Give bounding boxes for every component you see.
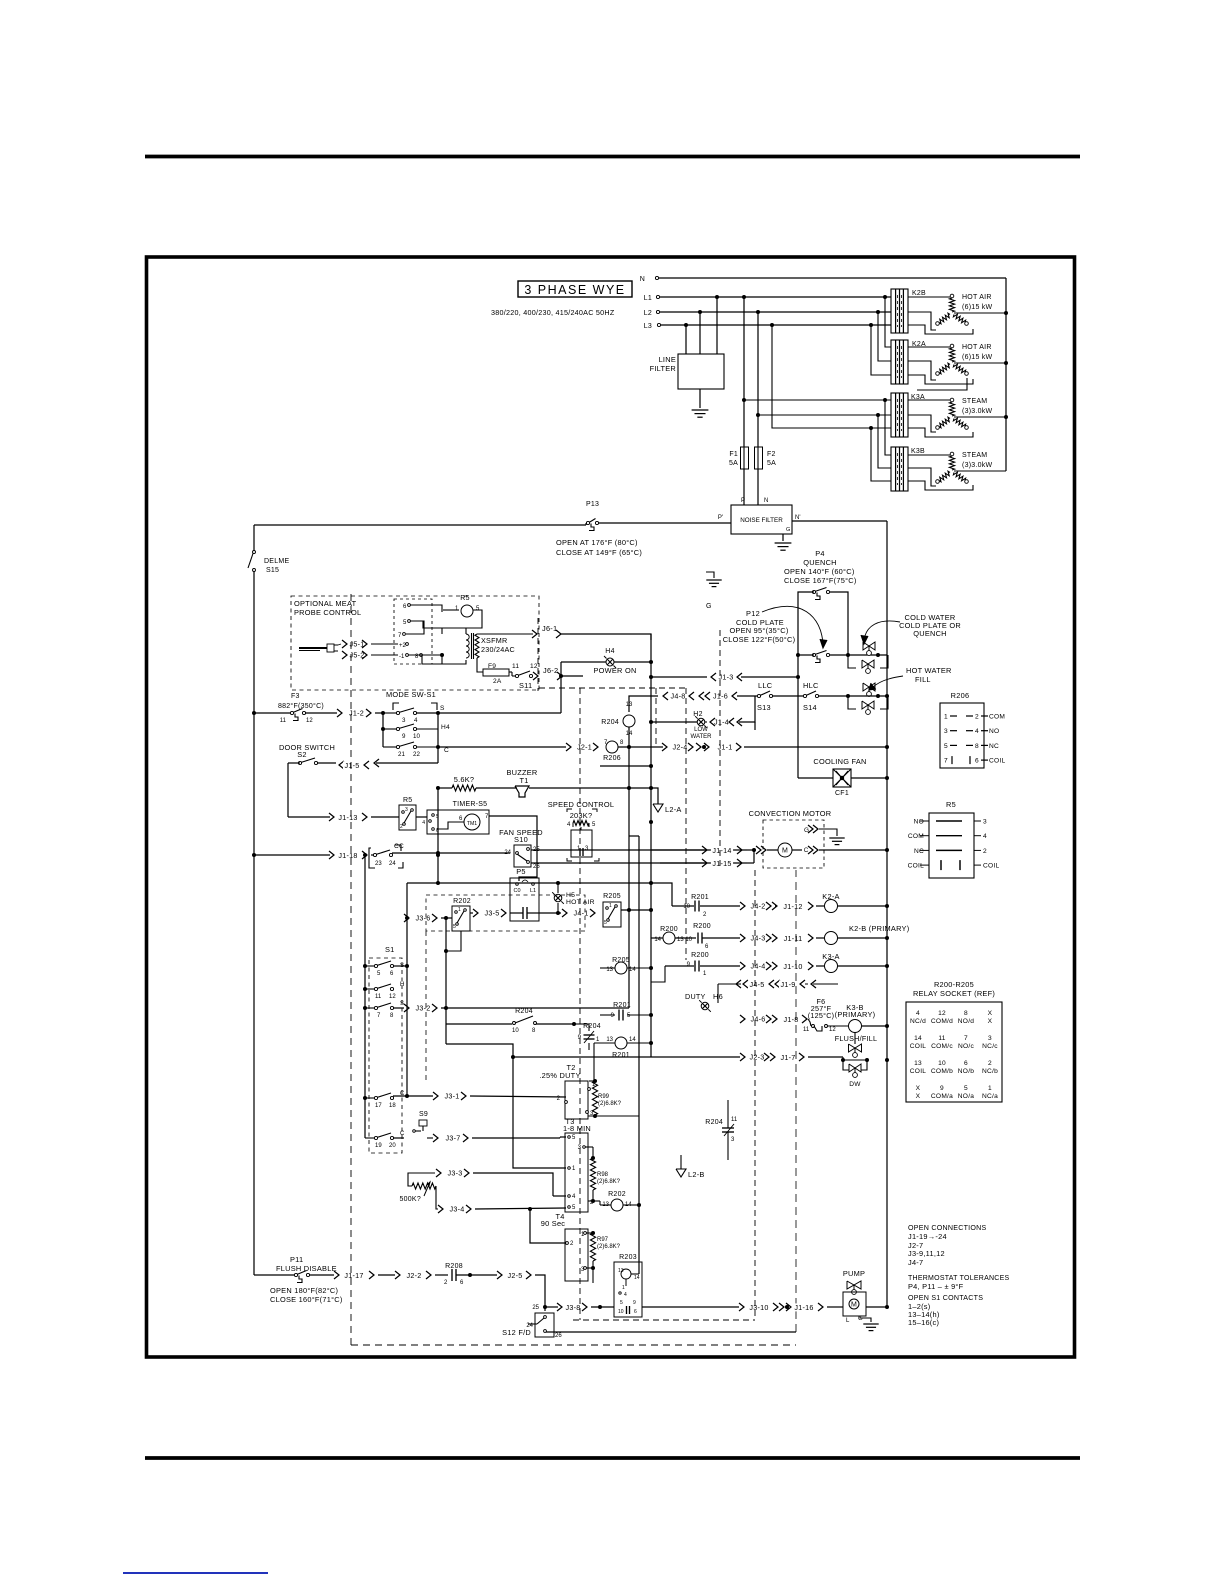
S1 dashed box xyxy=(369,958,402,1153)
connector J1-11 xyxy=(772,934,777,942)
optional meat probe control dashed box xyxy=(291,596,539,690)
svg-text:OPEN S1 CONTACTS: OPEN S1 CONTACTS xyxy=(908,1294,983,1302)
svg-text:(6)15 kW: (6)15 kW xyxy=(962,304,993,311)
node 629 910 xyxy=(627,908,631,912)
solenoid valve hot water xyxy=(863,683,875,691)
wire row 883 xyxy=(407,882,651,884)
svg-text:R5: R5 xyxy=(946,800,956,809)
svg-text:NC/c: NC/c xyxy=(982,1043,998,1050)
svg-text:J4-7: J4-7 xyxy=(908,1258,923,1267)
svg-text:J1-5: J1-5 xyxy=(345,761,360,770)
svg-text:10: 10 xyxy=(618,1309,624,1315)
svg-text:STEAM: STEAM xyxy=(962,398,987,405)
connector J5-2 xyxy=(350,651,363,659)
svg-text:20: 20 xyxy=(389,1143,396,1149)
connector J1-13 xyxy=(329,813,334,821)
convection motor dashed box xyxy=(763,820,824,868)
node J3-8 tap xyxy=(543,1305,547,1309)
wire S1 C-rows out xyxy=(393,1095,433,1097)
svg-text:NOISE FILTER: NOISE FILTER xyxy=(740,517,783,524)
svg-text:4: 4 xyxy=(414,717,418,724)
svg-text:J6-1: J6-1 xyxy=(542,624,557,633)
node L2-filter xyxy=(698,310,702,314)
svg-text:26: 26 xyxy=(555,1333,562,1339)
svg-text:11: 11 xyxy=(803,1027,810,1033)
svg-text:J3-7: J3-7 xyxy=(446,1133,461,1142)
footer link line xyxy=(123,1572,268,1574)
wire J6-2 to vertical 561 xyxy=(562,675,583,677)
wire 629 mid segment xyxy=(628,747,630,788)
heater STEAM 2 (wye) xyxy=(950,452,954,456)
connector J1-10 xyxy=(772,962,777,970)
svg-text:J1-11: J1-11 xyxy=(784,934,803,943)
wire J1-7 right xyxy=(808,1056,843,1058)
dashed boundary left vertical xyxy=(350,594,352,1345)
svg-text:J4-6: J4-6 xyxy=(751,1014,766,1023)
connector J3-3 xyxy=(444,1169,465,1177)
wire L3 drop to line filter xyxy=(685,325,687,354)
svg-text:J1-10: J1-10 xyxy=(783,962,802,971)
svg-text:R200: R200 xyxy=(691,952,709,959)
wire R203 out to J3-10 xyxy=(642,1306,739,1308)
timer T4 box xyxy=(565,1229,588,1281)
wire to J3-8 xyxy=(545,1306,558,1308)
svg-text:COM/c: COM/c xyxy=(931,1043,953,1050)
node mode C out xyxy=(436,745,440,749)
node 651 1015 xyxy=(649,1013,653,1017)
svg-text:12: 12 xyxy=(938,1010,946,1017)
svg-text:4: 4 xyxy=(975,728,979,735)
svg-text:NC: NC xyxy=(989,743,999,750)
svg-text:FLUSH/FILL: FLUSH/FILL xyxy=(835,1034,877,1043)
svg-text:R202: R202 xyxy=(453,898,471,905)
svg-text:H5: H5 xyxy=(566,892,575,899)
wire F2 to noise filter N xyxy=(757,469,759,505)
wire J2-5 to S12 xyxy=(535,1275,545,1311)
svg-text:R5: R5 xyxy=(460,595,469,602)
wire H4 row xyxy=(561,661,606,663)
node valve1 right xyxy=(876,653,880,657)
wire 755 link down xyxy=(754,722,756,730)
ground noise filter xyxy=(775,542,792,544)
speed control box xyxy=(571,830,592,857)
svg-text:3: 3 xyxy=(944,728,948,735)
svg-text:5: 5 xyxy=(620,1300,623,1306)
node L1-F1 xyxy=(742,295,746,299)
wire timer out to P5 xyxy=(489,816,537,881)
svg-text:P: P xyxy=(741,498,745,504)
node J1-14 xyxy=(752,848,756,852)
relay socket table box xyxy=(906,1002,1002,1102)
wire L1 xyxy=(660,296,891,298)
wire 796 riser xyxy=(795,870,797,1332)
heater HOT AIR 2 (wye) xyxy=(950,344,954,348)
node mode S right xyxy=(436,711,440,715)
svg-text:COM: COM xyxy=(908,833,924,840)
resistor R98 xyxy=(590,1158,595,1190)
mode switch dashed brackets xyxy=(393,703,399,710)
svg-text:.25% DUTY: .25% DUTY xyxy=(539,1071,580,1080)
svg-text:P5: P5 xyxy=(516,867,526,876)
svg-text:S: S xyxy=(440,705,445,712)
svg-text:OPEN 95°(35°C): OPEN 95°(35°C) xyxy=(729,626,788,635)
svg-text:5: 5 xyxy=(964,1085,968,1092)
svg-text:12: 12 xyxy=(829,1027,836,1033)
vertical wire 446 xyxy=(445,918,447,1044)
wire R206 to J2-4 xyxy=(618,746,663,748)
wire L2 to fuse F2 xyxy=(757,312,759,447)
wire left bus to J1-18 xyxy=(254,854,330,856)
svg-text:H: H xyxy=(400,982,404,988)
svg-text:11: 11 xyxy=(731,1117,738,1123)
relay socket R206 xyxy=(940,703,984,768)
svg-text:J3-3: J3-3 xyxy=(448,1168,463,1177)
connector J1-9 xyxy=(775,980,780,988)
resistor R99 xyxy=(592,1081,597,1115)
node K3B tap3 xyxy=(869,426,873,430)
svg-text:QUENCH: QUENCH xyxy=(913,629,947,638)
svg-text:S2: S2 xyxy=(297,750,307,759)
contactor K2A xyxy=(891,340,908,384)
svg-text:G: G xyxy=(786,527,790,533)
wire left bus corner to P11 xyxy=(254,1274,294,1276)
svg-text:13: 13 xyxy=(914,1060,922,1067)
timer TM1 box xyxy=(427,810,489,834)
svg-text:PUMP: PUMP xyxy=(843,1269,865,1278)
svg-text:24: 24 xyxy=(389,861,396,867)
switch DELME S15 xyxy=(253,551,256,554)
connector J1-6 xyxy=(699,692,704,700)
svg-text:COIL: COIL xyxy=(908,863,924,870)
svg-text:J2-2: J2-2 xyxy=(407,1271,422,1280)
svg-text:3: 3 xyxy=(988,1035,992,1042)
arrow cold water callout xyxy=(864,621,900,640)
svg-text:R200-R205: R200-R205 xyxy=(934,980,974,989)
svg-text:L2-A: L2-A xyxy=(665,805,682,814)
svg-text:(3)3.0kW: (3)3.0kW xyxy=(962,462,993,469)
wire J3-3 row xyxy=(473,1173,553,1196)
wire S10 25 to J1-14 row xyxy=(531,849,747,851)
svg-text:L3: L3 xyxy=(644,323,652,330)
svg-text:14: 14 xyxy=(629,1037,636,1043)
svg-text:MODE SW-S1: MODE SW-S1 xyxy=(386,690,436,699)
svg-text:CLOSE 122°F(50°C): CLOSE 122°F(50°C) xyxy=(723,635,796,644)
svg-text:M: M xyxy=(782,848,788,855)
node heater3 bus xyxy=(1004,415,1008,419)
pump valve symbol xyxy=(847,1281,861,1289)
connector J1-2 xyxy=(345,709,367,717)
heater HOT AIR 1 (wye) xyxy=(950,294,954,298)
connector J1-18 xyxy=(329,851,334,859)
wire K3B pole1 to heater4 xyxy=(908,454,950,456)
wire L2 drop to K2A xyxy=(878,312,891,361)
wire R99 top riser xyxy=(593,1077,595,1081)
vertical wire 438 xyxy=(437,788,439,884)
wire J3-4 row xyxy=(475,1208,566,1209)
wire pot to J3-3 xyxy=(408,1173,435,1186)
node L1-filter xyxy=(715,295,719,299)
node valve3 right xyxy=(876,694,880,698)
wire J1-1 to bus xyxy=(744,746,887,748)
svg-text:OPEN AT 176°F (80°C): OPEN AT 176°F (80°C) xyxy=(556,538,638,547)
svg-text:J4-5: J4-5 xyxy=(750,980,765,989)
svg-text:(3)3.0kW: (3)3.0kW xyxy=(962,408,993,415)
svg-text:H2: H2 xyxy=(693,711,702,718)
wire L3 gray to K3A pole3 xyxy=(772,427,891,429)
svg-text:R200: R200 xyxy=(693,923,711,930)
svg-text:R202: R202 xyxy=(608,1191,626,1198)
svg-text:THERMOSTAT TOLERANCES: THERMOSTAT TOLERANCES xyxy=(908,1275,1010,1282)
lamp H5 hot air xyxy=(557,903,559,913)
svg-text:-1: -1 xyxy=(399,654,405,660)
wire K3B pole2 to heater4 xyxy=(908,468,936,486)
wire H2 left xyxy=(651,721,697,723)
svg-text:HOT WATER: HOT WATER xyxy=(906,666,952,675)
connector J3-4 xyxy=(446,1205,467,1213)
svg-text:5: 5 xyxy=(604,920,607,926)
bypass loop valve 2 xyxy=(848,655,856,668)
wire P4 right leg xyxy=(830,592,848,654)
svg-text:J4-1: J4-1 xyxy=(574,908,589,917)
svg-text:M: M xyxy=(851,1302,857,1309)
wire J1-15 left tail xyxy=(600,862,660,864)
wire K2A pole2 to heater2 xyxy=(908,361,936,380)
wire S14 to valves xyxy=(818,695,887,697)
svg-text:5: 5 xyxy=(453,924,456,930)
svg-text:P': P' xyxy=(718,515,723,521)
speed control dashed corners xyxy=(567,809,572,812)
node L1 K2A tap xyxy=(883,295,887,299)
relay socket R5 xyxy=(929,813,974,878)
wire J3-1 row to T2 pin2 xyxy=(470,1096,566,1097)
node 651 910 xyxy=(649,908,653,912)
svg-text:J1-19→-24: J1-19→-24 xyxy=(908,1232,947,1241)
connector J3-2 xyxy=(412,1004,433,1012)
svg-text:19: 19 xyxy=(375,1143,382,1149)
bypass loop valve DW2 xyxy=(848,696,856,709)
svg-text:14: 14 xyxy=(634,1275,640,1281)
wire L1 drop to line filter xyxy=(716,297,718,354)
svg-text:DELME: DELME xyxy=(264,558,289,565)
wire CC to fan speed xyxy=(392,852,510,854)
node pump row xyxy=(785,1305,789,1309)
wire R205 coil xyxy=(600,967,615,969)
wire J1-8 to F6 xyxy=(808,1019,811,1026)
wire J1-14 link xyxy=(747,849,754,851)
wire P5 to J4-1 xyxy=(539,912,561,914)
wire S2 to J1-5 xyxy=(317,762,336,764)
wire noise filter G to ground xyxy=(782,534,784,541)
svg-text:P4: P4 xyxy=(815,549,825,558)
svg-text:N: N xyxy=(640,276,645,283)
switch S1 cc xyxy=(373,853,376,856)
transformer XSFMR xyxy=(441,628,443,634)
arrow right J1-9 xyxy=(811,980,816,988)
page top rule xyxy=(145,155,1080,159)
svg-text:J1-15: J1-15 xyxy=(712,859,731,868)
svg-text:R97: R97 xyxy=(597,1237,609,1243)
connector J4-8 xyxy=(668,692,687,700)
svg-text:R201: R201 xyxy=(691,894,709,901)
svg-text:7: 7 xyxy=(964,1035,968,1042)
wire R201 coil riser xyxy=(594,1042,615,1044)
wire noise filter N prime to right bus xyxy=(792,520,887,522)
wire to K3A pole1 xyxy=(744,399,891,401)
svg-text:POWER ON: POWER ON xyxy=(593,666,636,675)
row 766 stub xyxy=(600,765,651,767)
svg-text:P4, P11 – ± 9°F: P4, P11 – ± 9°F xyxy=(908,1282,964,1291)
wire motor to bus xyxy=(819,849,887,851)
connector J5-1 xyxy=(350,640,363,648)
connector J1-5 xyxy=(339,761,344,769)
thermostat P4 xyxy=(812,590,815,593)
ground line filter xyxy=(692,409,709,411)
wire T4 pin2 left xyxy=(530,1209,566,1243)
wire T2/R99 bottom row xyxy=(588,1115,639,1117)
dashed boundary 720 vertical xyxy=(719,630,721,870)
svg-text:N': N' xyxy=(795,515,800,521)
svg-text:NO: NO xyxy=(989,728,999,735)
wire drop to K3B pole3 xyxy=(871,428,891,481)
wire T3 pin3 to R98 xyxy=(585,1146,593,1148)
connector J1-1 xyxy=(696,743,701,751)
svg-text:J2-5: J2-5 xyxy=(508,1271,523,1280)
svg-text:CF1: CF1 xyxy=(835,790,849,797)
node 651 row766 xyxy=(649,764,653,768)
svg-text:6: 6 xyxy=(634,1309,637,1315)
svg-text:12: 12 xyxy=(306,718,313,724)
dashed boundary bottom L xyxy=(573,1319,755,1321)
node 438 buzzer xyxy=(436,786,440,790)
svg-text:10: 10 xyxy=(413,733,420,740)
svg-text:S12 F/D: S12 F/D xyxy=(502,1328,531,1337)
flag L2-A xyxy=(653,804,663,812)
svg-text:J1-6: J1-6 xyxy=(713,691,728,700)
svg-text:J5-1: J5-1 xyxy=(350,639,365,648)
svg-text:J6-2: J6-2 xyxy=(543,666,558,675)
svg-text:RELAY SOCKET (REF): RELAY SOCKET (REF) xyxy=(913,989,995,998)
svg-text:COIL: COIL xyxy=(910,1043,926,1050)
wire K2A pole3 to heater2 xyxy=(908,375,973,384)
wire J2-2 to R208 xyxy=(435,1274,448,1276)
wire L1 drop to K2A xyxy=(885,297,891,347)
svg-text:J1-12: J1-12 xyxy=(783,902,802,911)
title box 3 PHASE WYE xyxy=(518,281,632,297)
svg-text:X: X xyxy=(916,1093,921,1100)
node heater1 bus xyxy=(1004,311,1008,315)
svg-text:S11: S11 xyxy=(519,681,532,690)
node 651 968 xyxy=(649,966,653,970)
connector J1-14 xyxy=(702,846,707,854)
svg-text:S1: S1 xyxy=(385,945,395,954)
wire R97 bottom xyxy=(592,1261,594,1283)
svg-text:OPEN CONNECTIONS: OPEN CONNECTIONS xyxy=(908,1224,987,1232)
svg-text:J1-9: J1-9 xyxy=(781,980,796,989)
svg-text:R205: R205 xyxy=(603,893,621,900)
svg-text:F2: F2 xyxy=(767,451,776,458)
noise filter xyxy=(731,505,792,534)
svg-text:K2-B (PRIMARY): K2-B (PRIMARY) xyxy=(849,924,909,933)
S1 contact 5-6 xyxy=(363,964,367,968)
svg-text:5A: 5A xyxy=(767,460,776,467)
wire R200 coil left xyxy=(651,937,663,939)
wire 446 to R204 xyxy=(446,1023,512,1025)
S1 contact 7-8 xyxy=(363,1006,367,1010)
svg-text:OPEN 180°F(82°C): OPEN 180°F(82°C) xyxy=(270,1286,338,1295)
wire J1-16 to pump xyxy=(827,1306,843,1308)
thermostat P13 xyxy=(586,521,589,524)
svg-text:1: 1 xyxy=(609,903,612,909)
svg-text:J5-2: J5-2 xyxy=(350,650,365,659)
wire J6-1 to power-on loop xyxy=(561,634,651,640)
svg-text:S15: S15 xyxy=(266,567,279,574)
svg-text:S10: S10 xyxy=(514,835,528,844)
wire to K3A pole2 xyxy=(758,414,891,416)
svg-text:10: 10 xyxy=(512,1028,519,1034)
svg-text:230/24AC: 230/24AC xyxy=(481,645,515,654)
svg-text:11: 11 xyxy=(375,994,382,1000)
svg-text:R204: R204 xyxy=(705,1119,723,1126)
node 651 H2 xyxy=(649,720,653,724)
wire J1-4 arrow to vertical link xyxy=(737,718,742,726)
node L2-F2 xyxy=(756,310,760,314)
connector J1-17 xyxy=(334,1271,339,1279)
motor chevrons in xyxy=(756,846,761,854)
wire heater2 lower hook xyxy=(917,378,967,390)
wire P12 row xyxy=(798,654,814,656)
svg-text:J1-14: J1-14 xyxy=(712,846,731,855)
vertical wire 407 xyxy=(406,883,408,1096)
svg-text:R204: R204 xyxy=(601,719,619,726)
wire L2-A stub xyxy=(651,788,658,804)
svg-text:26: 26 xyxy=(533,864,540,870)
wire S9 to J3-7 xyxy=(427,1137,433,1139)
wire L3 xyxy=(661,324,891,326)
svg-text:OPTIONAL MEAT: OPTIONAL MEAT xyxy=(294,599,357,608)
S1 contact 17-18 xyxy=(363,1096,367,1100)
node heater2 bus xyxy=(1004,361,1008,365)
node 651 1043 xyxy=(649,1041,653,1045)
svg-text:5A: 5A xyxy=(729,460,738,467)
wire S13 to S14 xyxy=(772,695,803,697)
svg-text:(125°C): (125°C) xyxy=(808,1011,835,1020)
svg-text:2: 2 xyxy=(400,824,403,830)
flush/fill valve xyxy=(849,1044,862,1052)
svg-text:4: 4 xyxy=(422,820,425,826)
svg-text:90 Sec: 90 Sec xyxy=(541,1219,566,1228)
svg-text:J3-4: J3-4 xyxy=(450,1204,465,1213)
svg-text:COM/d: COM/d xyxy=(931,1018,953,1025)
svg-text:S: S xyxy=(400,1001,404,1007)
svg-text:S9: S9 xyxy=(419,1111,428,1118)
svg-text:12: 12 xyxy=(530,663,538,670)
flag L2-B xyxy=(676,1169,686,1177)
node L2 K2A tap xyxy=(876,310,880,314)
svg-text:17: 17 xyxy=(375,1103,382,1109)
svg-text:TIMER-S5: TIMER-S5 xyxy=(453,801,488,808)
S1 contact 19-20 xyxy=(365,1137,375,1139)
svg-text:K3B: K3B xyxy=(911,448,925,455)
svg-text:R204: R204 xyxy=(515,1008,533,1015)
svg-text:J1-3: J1-3 xyxy=(719,672,734,681)
wire R202 bottom hook xyxy=(446,931,461,951)
wire R204 to T2 area xyxy=(536,1023,574,1025)
wire pot wiper to J3-4 xyxy=(436,1186,438,1209)
svg-text:LOW: LOW xyxy=(694,727,708,733)
wire heater2 to bus xyxy=(954,362,1006,364)
svg-text:10: 10 xyxy=(938,1060,946,1067)
wire F1 to noise filter P xyxy=(743,469,745,505)
